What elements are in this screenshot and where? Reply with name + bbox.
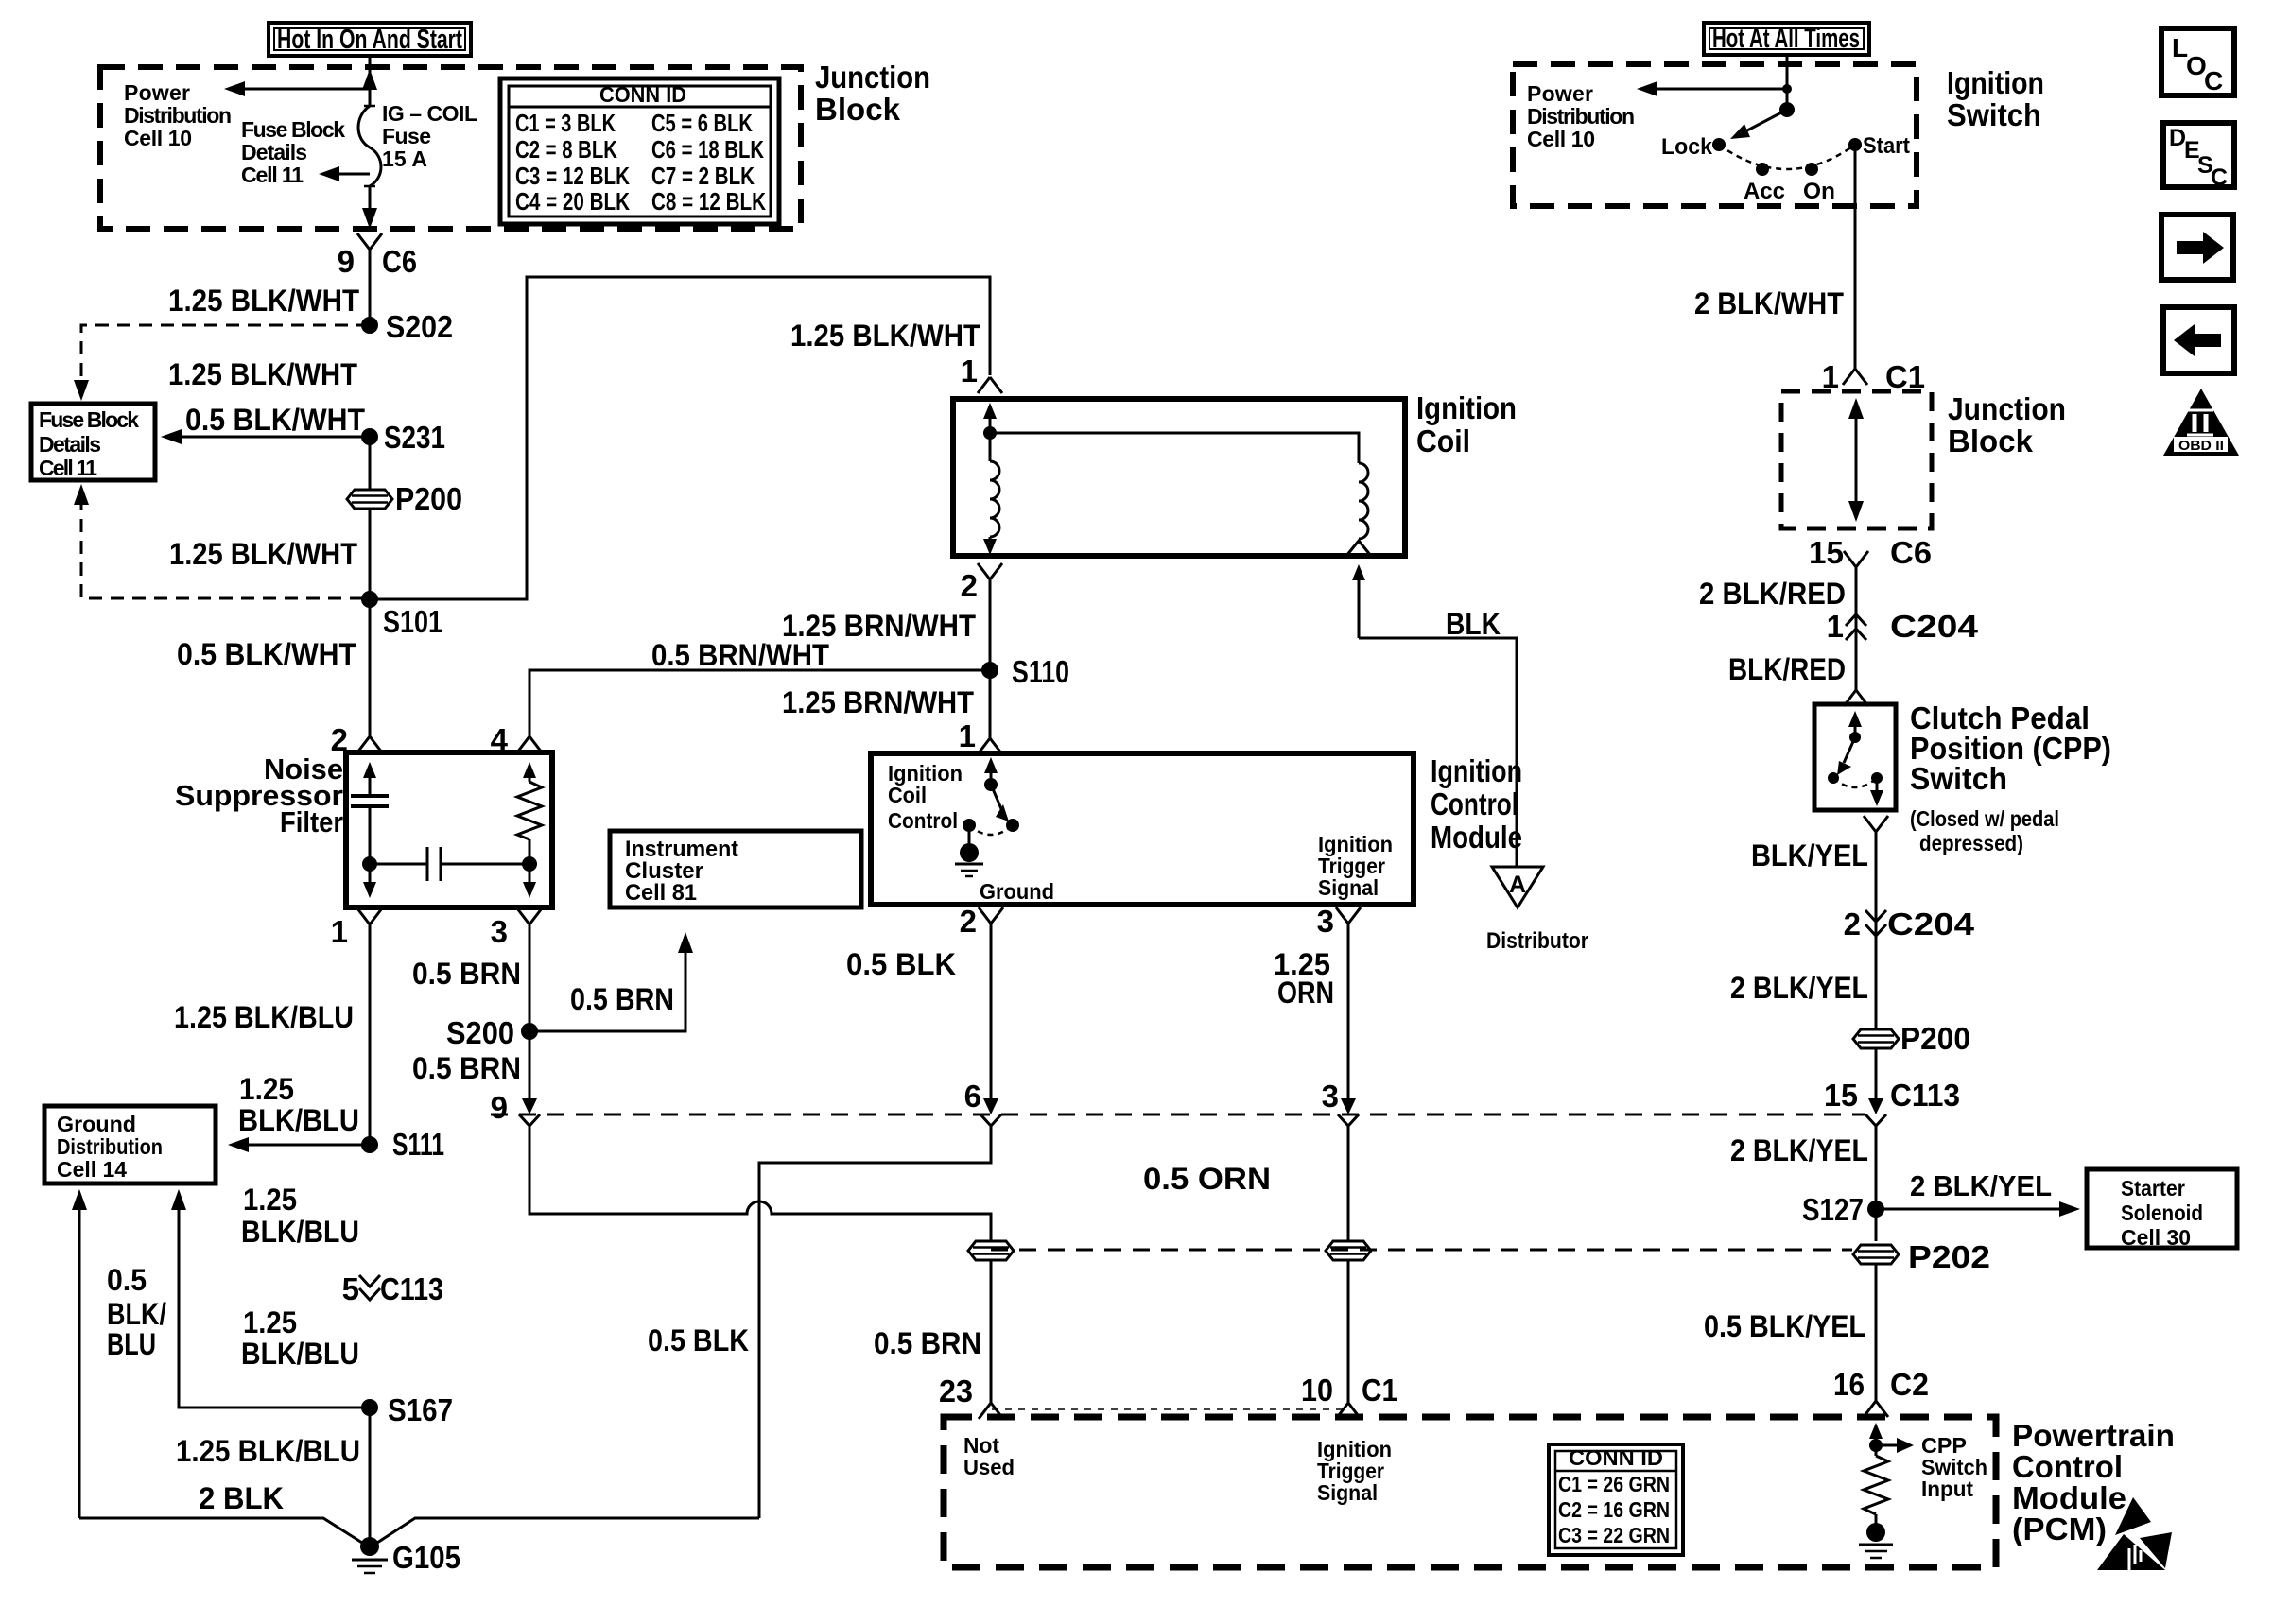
ignition coil control switch [963,757,1019,835]
svg-text:Cell 81: Cell 81 [625,880,697,906]
splice S110 [981,654,1069,689]
svg-text:P202: P202 [1908,1239,1990,1274]
pin 23 PCM [939,1373,1003,1419]
icon LOC [2161,28,2234,95]
ICM box [871,753,1414,905]
wire S101 to noise filter pin 2 [369,599,372,736]
svg-text:P200: P200 [1900,1021,1970,1056]
svg-text:C1 = 3 BLK: C1 = 3 BLK [515,109,616,137]
svg-text:1.25: 1.25 [243,1305,297,1339]
svg-text:Distribution: Distribution [1527,104,1635,129]
svg-text:0.5 BLK/WHT: 0.5 BLK/WHT [177,637,356,671]
svg-text:Junction: Junction [815,60,930,95]
wire label 1.25 BLK/BLU (two lines) [241,1305,359,1371]
svg-text:S202: S202 [386,309,453,344]
wire S167 down to G105 [369,1408,372,1543]
contact Start [1848,133,1910,159]
icon OBD II [2163,389,2239,456]
svg-text:Signal: Signal [1318,875,1379,900]
svg-text:S110: S110 [1012,654,1069,689]
label Junction Block [1948,391,2066,458]
wire 0.5 BLK to ground bus [759,1126,991,1518]
svg-text:C204: C204 [1890,609,1979,644]
svg-text:9: 9 [338,244,355,279]
svg-text:S231: S231 [384,420,445,455]
svg-text:Module: Module [2012,1480,2126,1515]
wire ground distribution to S167 [179,1204,370,1408]
svg-text:1.25 BLK/WHT: 1.25 BLK/WHT [169,537,357,571]
pin 4 noise filter [491,722,542,757]
svg-text:Coil: Coil [1416,423,1470,458]
connector 1 C1 [1822,359,1925,394]
ESD sensitive symbol [2097,1497,2172,1570]
wire Start to C1 [1854,145,1857,369]
svg-text:C1: C1 [1362,1373,1397,1408]
pin 1 noise filter [331,908,382,949]
svg-text:0.5 BLK/WHT: 0.5 BLK/WHT [185,403,365,437]
svg-text:10: 10 [1301,1373,1333,1408]
svg-text:2: 2 [961,568,978,603]
label CPP Switch Input [1921,1433,1987,1501]
svg-text:C113: C113 [1890,1078,1960,1113]
contact Acc [1744,163,1785,204]
internal node ignition coil [983,426,997,440]
svg-text:0.5 BLK: 0.5 BLK [846,947,956,981]
svg-text:Hot At All Times: Hot At All Times [1712,24,1860,54]
svg-text:C7 = 2 BLK: C7 = 2 BLK [651,162,755,190]
svg-text:Cell 30: Cell 30 [2121,1225,2191,1250]
svg-text:Signal: Signal [1317,1480,1378,1505]
wire filter pin 1 down to S111 [369,924,372,1145]
svg-text:3: 3 [1317,904,1334,939]
pass-through connector P200 [347,481,462,516]
svg-text:Acc: Acc [1744,179,1785,204]
svg-text:C6: C6 [1890,535,1932,570]
wire arrow to fuse block details [326,173,370,176]
svg-text:CONN ID: CONN ID [1569,1445,1663,1470]
contact Lock [1661,134,1726,160]
svg-text:Distribution: Distribution [57,1134,163,1159]
svg-text:C: C [2211,164,2228,191]
battery feed node [1779,102,1795,117]
wire S231 to P200 [369,437,372,491]
svg-text:0.5 ORN: 0.5 ORN [1143,1162,1271,1196]
svg-text:Ground: Ground [980,879,1054,904]
connector 9 C113 (at dashed line) [491,1090,540,1126]
svg-text:Cell 11: Cell 11 [39,456,97,480]
wire ICM pin 2 (0.5 BLK) down [990,924,993,1099]
distributor symbol A [1486,867,1588,954]
label Junction Block [815,60,930,127]
wire to PCM pin 10 [1347,1260,1350,1403]
svg-text:S111: S111 [392,1127,444,1162]
svg-text:Cell 14: Cell 14 [57,1157,127,1182]
svg-text:C1: C1 [1885,359,1925,394]
contact On [1803,163,1835,204]
dashed wire S202 to fuse block details [81,325,370,378]
header box Hot At All Times [1704,23,1869,55]
svg-text:Junction: Junction [1948,391,2066,426]
label Ignition Trigger Signal (PCM) [1317,1437,1392,1505]
svg-text:2 BLK/YEL: 2 BLK/YEL [1730,1133,1868,1167]
svg-text:1: 1 [961,354,978,389]
svg-text:0.5 BRN: 0.5 BRN [874,1326,981,1360]
svg-text:1.25 BLK/BLU: 1.25 BLK/BLU [174,1000,354,1034]
svg-text:2 BLK/RED: 2 BLK/RED [1699,577,1846,611]
switch ground inside ICM [955,825,1054,904]
connector 15 C6 [1809,535,1932,570]
svg-text:1.25 BLK/WHT: 1.25 BLK/WHT [168,357,357,391]
dashed line P202 [991,1249,1852,1252]
splice S101 [361,591,442,639]
svg-text:5: 5 [342,1271,359,1306]
svg-text:C6 = 18 BLK: C6 = 18 BLK [651,135,764,164]
conn id table PCM [1549,1444,1683,1555]
svg-text:Cell 11: Cell 11 [241,163,304,187]
svg-text:15: 15 [1824,1078,1858,1113]
svg-text:Details: Details [241,140,307,164]
svg-text:3: 3 [1322,1079,1339,1114]
wire C6 to C204 [1855,567,1858,690]
wire S127 to starter solenoid [1876,1208,2066,1211]
ignition switch dashed box [1513,64,1917,206]
svg-text:1.25 BRN/WHT: 1.25 BRN/WHT [782,685,974,719]
label IG-COIL Fuse 15 A [382,101,477,171]
svg-text:2 BLK: 2 BLK [199,1481,284,1515]
svg-text:Used: Used [963,1455,1015,1479]
svg-text:1.25: 1.25 [243,1183,297,1217]
pin 3 noise filter [491,908,542,949]
svg-text:OBD II: OBD II [2178,438,2224,454]
splice S127 [1802,1192,1884,1227]
svg-text:BLK/RED: BLK/RED [1728,652,1846,686]
pin into CPP switch [1844,690,1868,706]
connector 5 C113 [342,1271,443,1306]
junction block dashed boundary (fuse block) [100,67,801,229]
svg-text:Fuse Block: Fuse Block [241,117,345,142]
svg-text:Details: Details [39,432,101,457]
switch rotor arrow to Lock [1730,110,1787,139]
svg-text:Ground: Ground [57,1112,136,1136]
pin out of CPP switch [1864,816,1888,832]
wire BLK coil to distributor [1352,564,1517,867]
icon arrow right [2161,215,2233,280]
wire S110 to ICM pin 1 [989,670,992,738]
wire P200 to S101 [369,508,372,599]
label Not Used [963,1433,1015,1479]
svg-text:Distribution: Distribution [124,103,232,128]
svg-text:Control: Control [2012,1449,2123,1484]
dashed line C113 [491,1114,1865,1116]
svg-text:2 BLK/YEL: 2 BLK/YEL [1910,1169,2052,1202]
svg-text:Ignition: Ignition [1431,753,1522,788]
wire trigger signal to P202 [1347,1126,1350,1241]
CPP switch contacts [1828,711,1883,806]
connector 2 C204 [1844,907,1975,942]
pin 2 ICM [960,904,1003,939]
wire C113 to S127 [1875,1126,1878,1241]
wire S110 to noise filter pin 4 [529,670,990,736]
svg-text:3: 3 [491,914,508,949]
svg-text:C204: C204 [1887,907,1975,942]
wire through junction block [1848,398,1864,522]
svg-text:C4 = 20 BLK: C4 = 20 BLK [515,187,630,216]
svg-text:CONN ID: CONN ID [599,82,686,107]
svg-text:Fuse Block: Fuse Block [39,407,139,432]
splice S200 [446,1015,538,1050]
label Fuse Block Details Cell 11 [241,117,345,187]
wire P200 to C113 [1875,1048,1878,1099]
svg-text:BLK/BLU: BLK/BLU [241,1215,359,1249]
svg-text:15: 15 [1809,535,1844,570]
svg-text:Module: Module [1431,820,1522,855]
svg-text:C2: C2 [1890,1367,1929,1402]
svg-text:Powertrain: Powertrain [2012,1418,2175,1453]
wire label 0.5 BLK/ BLU (three lines) [107,1263,166,1361]
label Clutch Pedal Position (CPP) Switch [1910,700,2111,855]
svg-text:Filter: Filter [280,805,343,838]
svg-text:1: 1 [959,718,976,753]
wire 0.5 BRN down and right to PCM pin 23 column [529,1126,991,1241]
svg-text:6: 6 [964,1079,981,1114]
svg-text:Power: Power [1527,81,1593,106]
svg-text:BLU: BLU [107,1327,156,1361]
connector 6 C113 (at dashed line) [964,1079,1001,1126]
svg-text:C2 = 16 GRN: C2 = 16 GRN [1558,1497,1670,1522]
resistor inside filter [517,762,542,898]
svg-text:Control: Control [888,808,958,833]
wire label 1.25 BLK/BLU (two lines) [241,1183,359,1249]
svg-text:0.5 BRN/WHT: 0.5 BRN/WHT [651,638,829,672]
svg-text:23: 23 [939,1373,973,1408]
instrument cluster cell 81 box [610,831,861,907]
label Ignition Control Module [1431,753,1522,855]
dashed wire S101 to fuse block details [81,497,367,598]
svg-text:ORN: ORN [1277,976,1334,1010]
svg-text:1.25 BLK/WHT: 1.25 BLK/WHT [790,319,980,353]
pin 3 ICM [1317,904,1361,939]
svg-text:Fuse: Fuse [382,124,431,148]
switch detent arc [1719,145,1855,169]
CPP switch input circuit in PCM [1859,1423,1914,1558]
wire C6 to S202 [369,250,372,325]
svg-text:Cell 10: Cell 10 [1527,127,1595,151]
splice S167 [361,1392,453,1427]
svg-text:1.25: 1.25 [239,1072,294,1106]
label Power Distribution Cell 10 [124,80,232,150]
svg-text:2 BLK/YEL: 2 BLK/YEL [1730,971,1868,1005]
pin 1 ICM [959,718,1002,754]
svg-text:2 BLK/WHT: 2 BLK/WHT [1694,286,1844,320]
fuse block details cell 11 box [31,404,155,480]
svg-text:C2 = 8 BLK: C2 = 8 BLK [515,135,617,164]
svg-text:9: 9 [491,1090,508,1125]
label Ignition Coil [1416,390,1517,458]
svg-text:BLK/BLU: BLK/BLU [238,1103,359,1137]
icon DESC [2163,123,2234,191]
connector 1 C204 [1827,609,1979,644]
wire S111 to ground distribution [235,1144,370,1147]
label Noise Suppressor Filter [175,752,343,838]
connector 9 C6 [338,233,417,279]
wire S101 to ignition coil pin 1 [370,277,990,599]
connector 15 C113 (at dashed line) [1824,1078,1960,1126]
svg-text:Control: Control [1431,786,1518,821]
primary winding (left) with arrows [983,403,999,555]
wire P202 to PCM pin 16 [1875,1264,1878,1401]
svg-text:C3 = 22 GRN: C3 = 22 GRN [1558,1523,1670,1547]
svg-text:Start: Start [1863,133,1910,159]
svg-text:1: 1 [1822,359,1839,394]
svg-text:15 A: 15 A [382,147,427,171]
starter solenoid cell 30 box [2087,1169,2237,1250]
svg-text:P200: P200 [395,481,462,516]
PCM dashed box [944,1417,1996,1567]
svg-text:0.5 BRN: 0.5 BRN [412,1051,521,1085]
pin 16 C2 PCM [1833,1367,1929,1417]
icon arrow left [2163,307,2234,373]
svg-text:C113: C113 [380,1271,443,1306]
clutch pedal position switch box [1814,704,1896,810]
svg-text:Ignition: Ignition [1416,390,1517,425]
svg-text:BLK/BLU: BLK/BLU [241,1337,359,1371]
svg-text:Solenoid: Solenoid [2121,1201,2203,1225]
wire ground distribution to G105 bus [78,1204,81,1518]
pin 1 ignition coil [961,354,1002,393]
secondary winding (right) [1346,463,1371,556]
svg-text:0.5 BLK/YEL: 0.5 BLK/YEL [1704,1309,1865,1343]
conn id table [500,78,779,224]
pass-through connector (P202 line, left) [968,1241,1014,1260]
svg-text:(PCM): (PCM) [2012,1512,2107,1546]
pin 2 ignition coil [961,563,1002,603]
wire label 1.25 ORN (two lines) [1274,947,1334,1010]
wire ICM pin 3 (trigger) down [1347,924,1350,1099]
internal wire to secondary [990,433,1359,463]
svg-text:Input: Input [1921,1477,1973,1501]
svg-text:0.5 BRN: 0.5 BRN [412,957,521,991]
svg-text:S127: S127 [1802,1192,1864,1227]
wire arrow to power distribution [1649,88,1787,91]
capacitor (series) inside filter [362,847,537,881]
svg-text:1.25 BLK/WHT: 1.25 BLK/WHT [168,284,359,318]
wire arrow to power distribution [236,88,370,91]
wire filter pin 3 down to S200 [529,924,531,1099]
pass-through connector P202 [1853,1239,1990,1274]
splice S231 [361,420,445,455]
svg-text:1: 1 [331,914,348,949]
svg-text:1: 1 [1827,609,1844,644]
connector 3 C113 (at dashed line) [1322,1079,1359,1126]
svg-text:On: On [1803,179,1835,204]
fuse IG-COIL 15 A [364,106,375,186]
ignition coil box [953,399,1405,556]
wire from header into junction block [369,56,372,107]
svg-text:(Closed w/ pedal: (Closed w/ pedal [1910,806,2059,831]
ground distribution cell 14 box [44,1106,216,1183]
svg-text:Switch: Switch [1910,761,2007,796]
wire CPP to C204 [1875,832,1878,1029]
noise suppressor filter box [346,752,552,907]
pin 2 noise filter [331,722,382,757]
label Ignition Trigger Signal [1318,832,1393,900]
wire arrow S231 to fuse block details [168,436,370,439]
svg-text:0.5 BRN: 0.5 BRN [570,982,674,1016]
svg-text:A: A [1509,872,1526,898]
svg-text:Ignition: Ignition [1947,65,2044,100]
header box Hot In On And Start [269,23,471,56]
wire S200 to instrument cluster [529,945,685,1031]
wire down to connector C6 [369,186,372,217]
svg-text:C3 = 12 BLK: C3 = 12 BLK [515,162,630,190]
wire coil pin 2 to S110 [989,579,992,670]
ground bus into G105 [79,1518,759,1543]
svg-text:S101: S101 [383,604,442,639]
svg-text:0.5 BLK: 0.5 BLK [648,1323,749,1357]
svg-text:C: C [2204,66,2223,95]
label Ignition Switch [1947,65,2044,132]
svg-text:0.5: 0.5 [107,1263,147,1297]
svg-text:Block: Block [815,92,901,127]
svg-text:G105: G105 [392,1540,460,1575]
svg-text:IG – COIL: IG – COIL [382,101,477,126]
wire label 1.25 BLK/BLU (two lines) [238,1072,359,1137]
svg-text:Power: Power [124,80,190,105]
C1 connector face dashed line [992,1408,1348,1410]
svg-text:depressed): depressed) [1919,831,2023,855]
pass-through connector P200 (right) [1853,1021,1970,1056]
svg-text:16: 16 [1833,1367,1865,1402]
pass-through connector (P202 line, middle) [1326,1241,1371,1260]
splice S111 [361,1127,444,1162]
splice S202 [361,309,453,344]
svg-text:C1 = 26 GRN: C1 = 26 GRN [1558,1472,1670,1496]
svg-text:Cell 10: Cell 10 [124,126,192,150]
capacitor (shunt) inside filter [351,762,389,898]
label Power Distribution Cell 10 [1527,81,1635,151]
svg-text:2: 2 [960,904,977,939]
svg-text:Lock: Lock [1661,134,1713,160]
svg-text:Coil: Coil [888,783,927,807]
svg-text:Block: Block [1948,423,2034,458]
svg-text:C6: C6 [382,244,417,279]
svg-text:BLK/YEL: BLK/YEL [1751,838,1868,872]
junction block dashed box (right) [1781,391,1932,528]
svg-text:2: 2 [1844,907,1861,942]
svg-text:Starter: Starter [2121,1176,2185,1201]
wire from header into switch [1786,55,1789,110]
svg-text:S200: S200 [446,1015,514,1050]
svg-text:BLK/: BLK/ [107,1297,166,1331]
label Ignition Coil Control [888,761,963,833]
svg-text:BLK: BLK [1446,607,1501,641]
ground G105 [352,1537,460,1575]
svg-text:Hot In On And Start: Hot In On And Start [277,25,462,55]
svg-text:C8 = 12 BLK: C8 = 12 BLK [651,187,766,216]
svg-text:S167: S167 [388,1392,453,1427]
pin 10 C1 PCM [1301,1373,1397,1419]
svg-text:C5 = 6 BLK: C5 = 6 BLK [651,109,753,137]
svg-text:Distributor: Distributor [1486,928,1588,954]
svg-text:1.25 BLK/BLU: 1.25 BLK/BLU [176,1434,360,1468]
wire to PCM pin 23 [990,1260,993,1403]
label Powertrain Control Module (PCM) [2012,1418,2175,1546]
svg-text:Switch: Switch [1947,97,2041,132]
